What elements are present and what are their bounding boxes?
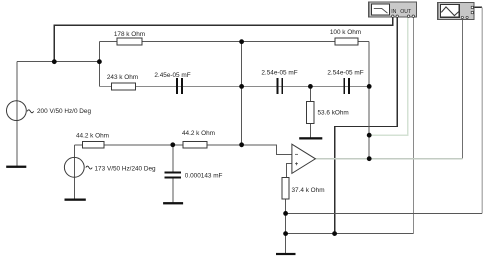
node dot mid x241 xyxy=(239,84,244,89)
ground under V1 xyxy=(6,166,26,168)
node dot mid x369 xyxy=(367,84,372,89)
resistor R7 37.4 k Ohm vertical xyxy=(282,177,325,199)
wire R7 bottom to ground rails xyxy=(285,199,287,253)
svg-text:2.45e-05 mF: 2.45e-05 mF xyxy=(154,72,190,79)
wire OUT+ probe (pale green) from Bode plotter to node at x369 xyxy=(369,17,408,135)
wire R4 bottom to ground xyxy=(309,124,311,138)
wire vertical x369.2 feedback column xyxy=(368,42,370,159)
svg-text:100 k Ohm: 100 k Ohm xyxy=(330,29,361,36)
node dot feedback x369 y135 xyxy=(367,133,372,138)
resistor R1 178 k Ohm xyxy=(114,31,145,45)
resistor R4 53.6 kOhm vertical xyxy=(307,102,349,124)
svg-text:44.2 k Ohm: 44.2 k Ohm xyxy=(76,132,109,139)
node dot top x241 xyxy=(239,39,244,44)
svg-text:173 V/50 Hz/240 Deg: 173 V/50 Hz/240 Deg xyxy=(95,166,157,173)
resistor R3 100 k Ohm xyxy=(330,29,361,45)
wire IN+ probe from Bode plotter to input node xyxy=(54,17,393,62)
node dot opamp line x172 xyxy=(170,142,175,147)
wire top line y41.7 xyxy=(99,41,369,43)
node dot input tap xyxy=(52,59,57,64)
svg-text:53.6 kOhm: 53.6 kOhm xyxy=(318,110,349,117)
wire branch to R4 from node (310,86.4) xyxy=(309,86,311,101)
source V2 173 V AC xyxy=(64,157,156,177)
svg-text:178 k Ohm: 178 k Ohm xyxy=(114,31,145,38)
wire bottom rail y213.4 xyxy=(286,212,483,214)
instrument XSC1 oscilloscope xyxy=(438,3,474,20)
svg-text:37.4 k Ohm: 37.4 k Ohm xyxy=(292,187,325,194)
svg-text:0.000143 mF: 0.000143 mF xyxy=(185,173,223,180)
wire node line y61.7 from V1 to node B xyxy=(17,61,99,63)
svg-text:243 k Ohm: 243 k Ohm xyxy=(107,74,138,81)
wire OUT- probe (gray) from Bode plotter down to bottom rail xyxy=(412,17,414,234)
wire op-amp output line (light gray-green) xyxy=(315,158,462,160)
node dot rail2 x334 xyxy=(332,231,337,236)
wire source V1 vertical through circle to ground xyxy=(16,62,18,167)
capacitor C4 0.000143 mF vertical xyxy=(164,173,222,180)
wire op-amp input line y144.8 xyxy=(74,145,292,155)
svg-text:IN: IN xyxy=(391,9,396,15)
resistor R6 44.2 k Ohm xyxy=(182,130,215,148)
node dot opamp line x241 xyxy=(239,142,244,147)
wire scope channel B vertical (gray) xyxy=(461,19,463,158)
ground under R4 xyxy=(299,137,322,139)
resistor R2 243 k Ohm xyxy=(107,74,138,90)
ground under R7 xyxy=(276,253,296,255)
wire middle line y86.4 xyxy=(99,85,369,87)
capacitor C3 2.54e-05 mF xyxy=(327,70,363,95)
wire C4 bottom to ground xyxy=(172,178,174,202)
resistor R5 44.2 k Ohm xyxy=(76,132,109,148)
wire C4 branch down from node (172.8,144.8) xyxy=(172,145,174,172)
ground under C4 xyxy=(163,202,183,204)
wire node B vertical x99.4 xyxy=(98,42,100,87)
svg-text:2.54e-05 mF: 2.54e-05 mF xyxy=(261,70,297,77)
op-amp U1 xyxy=(292,144,316,173)
node dot B xyxy=(97,59,102,64)
svg-text:2.54e-05 mF: 2.54e-05 mF xyxy=(327,70,363,77)
instrument XBP1 Bode plotter xyxy=(369,2,417,17)
node dot output x369 y158.7 xyxy=(367,156,372,161)
node dot rail2 xyxy=(283,231,288,236)
wire vertical x241.6 joining three lines xyxy=(241,42,243,145)
wire bottom rail y233.6 xyxy=(286,233,414,235)
svg-text:OUT: OUT xyxy=(400,9,412,15)
svg-text:44.2 k Ohm: 44.2 k Ohm xyxy=(182,130,215,137)
wire scope channel A: dark stub, light vertical at right edge xyxy=(474,7,482,213)
capacitor C2 2.54e-05 mF xyxy=(261,70,297,95)
ground under V2 xyxy=(65,199,86,201)
capacitor C1 2.45e-05 mF xyxy=(154,72,190,94)
wire op-amp plus input to R7 xyxy=(286,164,292,178)
source V1 200 V AC xyxy=(7,101,92,121)
svg-text:200 V/50 Hz/0 Deg: 200 V/50 Hz/0 Deg xyxy=(37,108,91,115)
wire IN- probe from Bode plotter to ground rail xyxy=(335,17,398,234)
node dot mid x310 xyxy=(308,84,313,89)
node dot rail1 xyxy=(283,211,288,216)
wire source V2 vertical through circle to ground xyxy=(73,145,75,200)
